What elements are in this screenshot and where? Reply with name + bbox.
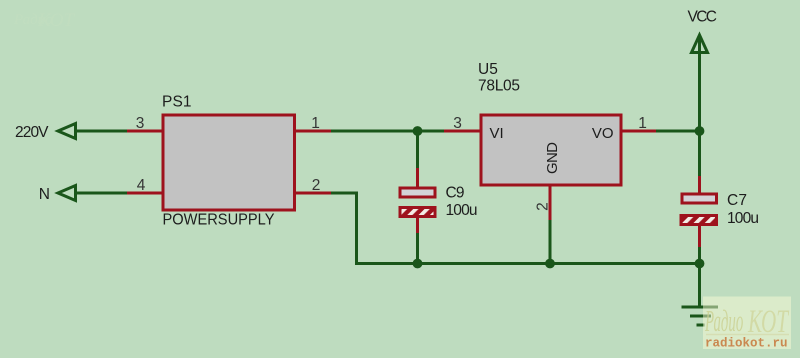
svg-text:POWERSUPPLY: POWERSUPPLY [163,212,275,229]
transformer PS1 body [163,115,295,210]
wire ground rail [355,262,700,265]
svg-text:VCC: VCC [688,9,718,26]
capacitor C7 pin stub top [698,176,701,195]
svg-text:2: 2 [312,177,321,194]
capacitor C7 negative plate [681,216,717,225]
node junction at C9 top [413,126,423,136]
watermark logo text [704,304,789,340]
capacitor C9 pin stub top [416,168,419,189]
VCC supply arrow [692,35,708,53]
svg-text:3: 3 [453,115,462,132]
svg-text:C9: C9 [446,185,465,202]
svg-text:VO: VO [592,125,614,142]
ground symbol bar 1 [682,306,719,309]
wire C9 top lead [416,131,419,170]
node junction at C7 bottom [695,259,705,269]
svg-text:100u: 100u [446,202,478,219]
svg-text:VI: VI [490,125,504,142]
ground symbol bar 3 [697,324,705,327]
wire pin1 to U5 input [331,130,445,133]
capacitor C9 positive plate [400,188,435,197]
wire 220V net [76,130,129,133]
svg-text:GND: GND [544,142,561,174]
ground symbol bar 2 [690,315,711,318]
node junction at C9 bottom [413,259,423,269]
svg-text:U5: U5 [478,61,498,78]
capacitor C7 positive plate [682,194,717,203]
watermark panel radiokot [703,297,791,350]
faint corner watermark (top-left) [13,10,75,31]
node junction at VO / VCC [695,126,705,136]
port arrow 220V [58,124,76,139]
svg-text:Радио: Радио [704,304,743,338]
wire U5 GND pin down to rail [549,220,552,264]
regulator U5 body [481,115,621,185]
pin 2 stub of PS1 [296,192,331,195]
capacitor C9 negative plate [400,208,435,217]
svg-text:PS1: PS1 [162,94,192,111]
svg-text:radiokot.ru: radiokot.ru [705,337,788,351]
svg-text:4: 4 [137,177,146,194]
svg-text:КОТ: КОТ [37,10,75,31]
wire pin2 down to ground rail [331,193,357,265]
svg-text:78L05: 78L05 [478,78,520,95]
svg-text:1: 1 [311,115,320,132]
port arrow N [58,186,76,201]
pin 2 stub of U5 (GND) [549,185,552,220]
svg-text:220V: 220V [15,124,49,141]
svg-text:1: 1 [638,115,647,132]
wire N net [76,192,129,195]
pin 4 stub of PS1 [127,192,163,195]
wire VO to VCC line [656,130,700,133]
svg-text:100u: 100u [727,210,759,227]
pin 3 stub of U5 (VI) [444,130,481,133]
wire C9 bottom lead [416,233,419,264]
pin 1 stub of U5 (VO) [620,130,656,133]
capacitor C9 pin stub bottom [416,217,419,235]
svg-text:2: 2 [534,202,551,211]
wire ground stem [698,264,701,308]
node junction at GND pin on rail [545,259,555,269]
svg-text:C7: C7 [727,192,747,209]
capacitor C7 pin stub bottom [698,225,701,249]
pin 1 stub of PS1 [296,130,331,133]
wire C7 top lead [698,131,701,178]
wire C7 bottom lead [698,247,701,264]
pin 3 stub of PS1 [127,130,163,133]
wire VCC riser [698,36,701,131]
svg-text:3: 3 [136,115,145,132]
svg-text:N: N [39,186,50,203]
